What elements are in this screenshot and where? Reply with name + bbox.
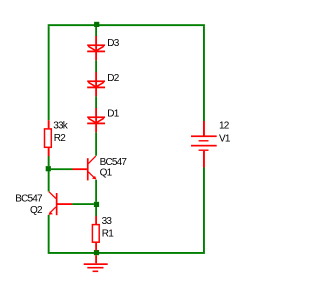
resistor R1 [92,216,99,251]
transistor Q2 [49,192,72,216]
wire left rail junction to Q2 collector [48,171,50,192]
svg-text:R1: R1 [102,229,114,240]
svg-text:Q2: Q2 [30,205,43,216]
svg-text:BC547: BC547 [15,194,43,205]
wire middle top (junction to D3) [95,27,97,36]
svg-text:33: 33 [102,216,113,227]
wire bottom rail [48,252,205,254]
diode D1 [87,108,105,132]
wire between D3 and D2 [95,60,97,72]
wire left rail upper (top rail to R2) [48,26,50,120]
transistor Q1 [73,156,96,180]
wire between D2 and D1 [95,96,97,108]
diode D2 [87,72,105,96]
svg-text:33k: 33k [53,121,69,132]
wire Q1 emitter down to middle junction [95,180,97,202]
resistor R2 [45,120,52,156]
junction node R1 / ground / bottom rail [94,250,99,255]
battery plate long [191,145,217,147]
wire left rail R2 to junction [48,156,50,166]
junction node top rail / diode chain [94,22,99,27]
wire middle junction to R1 [95,207,97,216]
battery plate short (bottom) [199,150,209,151]
svg-text:V1: V1 [219,133,231,144]
wire left rail Q2 emitter to bottom rail [48,215,50,252]
wire D1 to Q1 collector [95,132,97,155]
junction node Q1 emitter / Q2 base / R1 [94,202,99,207]
ground [84,255,108,272]
svg-text:D2: D2 [107,73,119,84]
diode D3 [87,36,105,60]
wire right rail lower (V1 to bottom rail) [203,168,205,253]
arrow Q1 emitter [92,176,97,180]
wire Q1 base horizontal (green part) [51,168,73,170]
battery plate short [199,140,209,141]
svg-text:Q1: Q1 [100,167,113,178]
svg-text:R2: R2 [54,133,66,144]
svg-text:D1: D1 [107,109,119,120]
svg-text:D3: D3 [107,38,119,49]
battery V1 [191,121,217,168]
wire Q2 base horizontal (green part) [72,203,94,205]
battery plate long (top) [191,135,217,137]
svg-text:12: 12 [219,121,230,132]
junction node R2 / Q1 base / Q2 collector [46,166,51,171]
arrow Q2 emitter [48,211,53,215]
wire top rail [48,24,205,26]
wire right rail upper (top rail to V1) [203,26,205,121]
